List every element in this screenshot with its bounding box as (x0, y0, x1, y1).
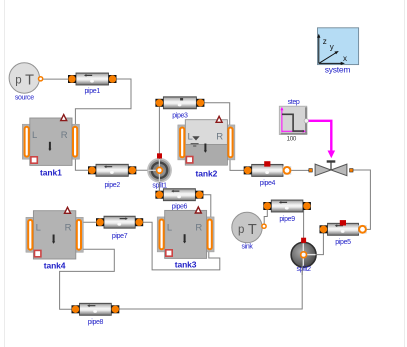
svg-text:pipe5: pipe5 (335, 239, 351, 246)
svg-text:tank2: tank2 (196, 169, 218, 179)
svg-text:R: R (195, 222, 202, 233)
svg-text:L: L (188, 132, 193, 143)
svg-text:L: L (167, 222, 172, 233)
svg-text:pipe3: pipe3 (172, 112, 188, 119)
svg-text:R: R (65, 223, 72, 234)
svg-text:T: T (25, 73, 34, 89)
svg-text:source: source (15, 95, 34, 102)
svg-text:pipe2: pipe2 (105, 182, 121, 189)
svg-text:p: p (15, 75, 21, 87)
svg-text:tank3: tank3 (175, 259, 197, 269)
svg-text:pipe4: pipe4 (260, 180, 276, 187)
svg-text:tank4: tank4 (44, 261, 66, 271)
svg-text:pipe8: pipe8 (88, 319, 104, 326)
svg-text:pipe1: pipe1 (85, 88, 101, 95)
svg-text:p: p (238, 224, 244, 236)
svg-text:tank1: tank1 (40, 167, 62, 177)
svg-text:z: z (323, 37, 327, 46)
svg-text:x: x (343, 54, 347, 63)
svg-text:system: system (325, 65, 351, 75)
svg-text:L: L (32, 130, 37, 141)
svg-text:sink: sink (241, 244, 253, 251)
svg-text:step: step (288, 99, 300, 106)
svg-text:R: R (61, 130, 68, 141)
svg-text:pipe6: pipe6 (172, 204, 188, 211)
svg-text:split2: split2 (296, 266, 311, 273)
svg-text:T: T (248, 222, 257, 238)
svg-text:L: L (36, 223, 41, 234)
svg-text:y: y (330, 43, 334, 52)
svg-text:100: 100 (287, 136, 297, 143)
svg-text:pipe7: pipe7 (112, 233, 128, 240)
svg-text:R: R (216, 132, 223, 143)
svg-text:pipe9: pipe9 (279, 216, 295, 223)
